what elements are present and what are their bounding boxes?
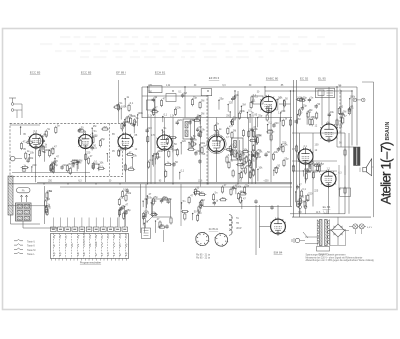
wire v x235 xyxy=(234,91,236,118)
svg-text:220: 220 xyxy=(148,127,153,130)
svg-text:ECH 81: ECH 81 xyxy=(155,71,166,75)
wire v x147.5 xyxy=(147,87,149,184)
svg-text:EL 95: EL 95 xyxy=(318,77,326,81)
triode V8 xyxy=(320,122,338,143)
wire tube drop 5 xyxy=(216,152,218,182)
dial lamp La1 xyxy=(353,224,358,229)
triode ECC85b V2 xyxy=(78,133,93,151)
rail value labels xyxy=(48,85,342,214)
wire vertical rail 7 xyxy=(340,91,342,136)
wire v x265 to tube F xyxy=(264,87,266,97)
component cluster 2 xyxy=(60,125,109,175)
wire extra v8 xyxy=(348,133,350,214)
svg-text:2M: 2M xyxy=(71,165,74,168)
svg-text:ECC 85: ECC 85 xyxy=(30,71,41,75)
tube socket S1 xyxy=(195,232,209,246)
svg-text:2M: 2M xyxy=(242,103,245,106)
cap above EM84 a xyxy=(254,199,257,204)
wire stub D xyxy=(164,118,166,136)
wire switch drops xyxy=(118,211,120,226)
svg-text:2M: 2M xyxy=(311,116,314,119)
wire y171 right xyxy=(292,170,337,172)
bridge rectifier GL xyxy=(328,217,349,245)
wire v x173 xyxy=(172,118,174,184)
svg-text:6,3 V: 6,3 V xyxy=(367,227,373,229)
component cluster 14 xyxy=(212,184,249,209)
svg-text:100k: 100k xyxy=(121,106,127,109)
component cluster 17 xyxy=(338,96,356,127)
wire tube drop 7 xyxy=(305,164,307,182)
wire lower mid bus xyxy=(203,206,292,208)
svg-text:0,1: 0,1 xyxy=(120,196,124,199)
svg-text:TA: TA xyxy=(236,217,239,220)
svg-text:25p: 25p xyxy=(154,196,159,199)
wire EM84 left v2 xyxy=(259,205,261,248)
svg-text:UKW: UKW xyxy=(236,228,242,230)
svg-text:220: 220 xyxy=(274,122,279,125)
switch vertical labels xyxy=(54,230,128,256)
sub box left xyxy=(153,199,171,217)
wire G down xyxy=(305,164,307,184)
component cluster 18 xyxy=(249,130,262,178)
wire mains a xyxy=(305,236,318,238)
svg-text:100k: 100k xyxy=(146,196,152,199)
wire extra v4 xyxy=(251,118,253,184)
wire tube drop 4 xyxy=(164,150,166,182)
wire vertical rail 1 xyxy=(290,91,292,207)
box top-mid xyxy=(201,89,212,96)
wire x118.5 drop xyxy=(118,80,120,123)
pot arrow xyxy=(147,213,156,222)
wire EM84 top xyxy=(277,205,279,219)
triode ECC85a V1 xyxy=(28,132,43,150)
wire right rail y217 xyxy=(292,216,371,218)
svg-text:100k: 100k xyxy=(155,156,161,159)
svg-text:25p: 25p xyxy=(122,205,127,208)
svg-text:Taste L: Taste L xyxy=(27,253,35,256)
svg-text:0,1: 0,1 xyxy=(130,102,134,105)
wire y161 right xyxy=(292,160,337,162)
svg-text:100: 100 xyxy=(315,144,320,147)
IF can T2 xyxy=(232,138,244,160)
svg-text:Taste M: Taste M xyxy=(27,249,35,252)
svg-text:0,1/250: 0,1/250 xyxy=(84,239,86,247)
wire B+ top rail xyxy=(142,86,357,88)
relay box xyxy=(141,218,150,238)
trimmer 2 xyxy=(50,168,54,172)
wire antenna down xyxy=(11,215,59,228)
svg-text:0,1: 0,1 xyxy=(181,169,185,172)
jack circles xyxy=(353,98,365,102)
svg-text:FA: FA xyxy=(22,190,25,193)
wire extra v3 xyxy=(248,118,250,184)
antenna jack left xyxy=(10,156,22,161)
component cluster 5 xyxy=(145,92,206,180)
FM antenna terminals xyxy=(9,98,22,118)
svg-text:220: 220 xyxy=(308,192,313,195)
svg-text:2M: 2M xyxy=(47,198,50,201)
svg-text:2M: 2M xyxy=(103,126,106,129)
antenna coil block xyxy=(16,203,32,221)
output transformer core xyxy=(354,147,361,166)
trimmer 1 xyxy=(22,168,26,172)
wire speaker down xyxy=(372,166,374,168)
shield dash x340 xyxy=(339,85,341,133)
svg-text:100k: 100k xyxy=(175,106,181,109)
svg-text:L 10: L 10 xyxy=(324,209,330,213)
wire vertical rail 5 xyxy=(344,133,346,214)
svg-text:25p: 25p xyxy=(160,224,165,227)
mains transformer core xyxy=(319,219,327,245)
wire y96 rail xyxy=(142,95,207,97)
small box a xyxy=(147,100,155,110)
tube value labels xyxy=(23,96,343,193)
wire tube drop 2 xyxy=(85,148,87,182)
values box xyxy=(340,188,351,196)
svg-text:25p: 25p xyxy=(219,97,224,100)
junction dots xyxy=(43,86,352,184)
wire mid bus xyxy=(37,181,292,183)
svg-text:0,1: 0,1 xyxy=(164,114,168,117)
wire OT top taps xyxy=(337,133,354,175)
wire tube drop 1 xyxy=(35,147,37,182)
svg-text:2M: 2M xyxy=(320,163,323,166)
wire vertical rail 9 xyxy=(356,87,358,146)
svg-text:EL 84: EL 84 xyxy=(323,205,331,209)
svg-text:220: 220 xyxy=(178,119,183,122)
ferrite rod antenna xyxy=(8,176,13,215)
wire OT secondary xyxy=(359,168,361,173)
svg-text:220: 220 xyxy=(32,164,37,167)
wire mains b xyxy=(305,243,318,245)
rectifier unit outline xyxy=(330,230,346,246)
wire x339 drop xyxy=(338,165,340,214)
svg-text:225: 225 xyxy=(215,132,220,135)
svg-text:220: 220 xyxy=(281,110,286,113)
component cluster 13 xyxy=(181,186,207,221)
wire y125 left xyxy=(10,124,40,126)
switch main box xyxy=(51,234,129,259)
speaker LS xyxy=(363,159,372,176)
svg-text:2M: 2M xyxy=(81,137,84,140)
wire vertical rail 4 xyxy=(299,133,301,217)
wire tube drop 6 xyxy=(270,113,272,183)
svg-text:2M: 2M xyxy=(68,163,71,166)
component cluster 1 xyxy=(20,124,60,173)
small box c xyxy=(166,94,176,102)
component cluster 15 xyxy=(295,184,313,209)
wire vertical rail 3 xyxy=(296,80,298,207)
wire extra v1 xyxy=(150,118,152,184)
svg-text:Taste K: Taste K xyxy=(27,245,35,248)
svg-text:Programmschalter: Programmschalter xyxy=(80,260,101,264)
svg-text:2M: 2M xyxy=(201,100,204,103)
svg-text:100k: 100k xyxy=(51,161,57,164)
wire x181 down xyxy=(180,184,182,227)
svg-text:EF 89 II: EF 89 II xyxy=(209,76,220,80)
svg-text:Atelier 1(–7): Atelier 1(–7) xyxy=(379,142,394,205)
wire y133 rail xyxy=(292,132,345,134)
svg-text:225: 225 xyxy=(314,189,319,192)
svg-text:100k: 100k xyxy=(274,167,280,170)
svg-text:0,1: 0,1 xyxy=(252,100,256,103)
wire stub C xyxy=(125,118,127,135)
svg-text:47p: 47p xyxy=(60,252,62,256)
svg-text:220: 220 xyxy=(307,171,312,174)
switch box internals xyxy=(52,234,127,261)
svg-text:25p: 25p xyxy=(101,138,106,141)
svg-text:EM 84: EM 84 xyxy=(274,251,283,255)
svg-text:25p: 25p xyxy=(193,97,198,100)
svg-text:2M: 2M xyxy=(258,135,261,138)
svg-text:25p: 25p xyxy=(54,164,59,167)
svg-text:25p: 25p xyxy=(163,196,168,199)
wire x200.5 xyxy=(200,118,202,187)
component cluster 8 xyxy=(295,96,335,126)
svg-text:2M: 2M xyxy=(233,130,236,133)
box top-left of IF xyxy=(149,86,162,93)
wire v x185 xyxy=(184,87,186,118)
svg-text:25p: 25p xyxy=(258,115,263,118)
wire vertical rail 2 xyxy=(293,80,295,217)
aux connector terminals xyxy=(299,195,308,214)
svg-text:5n/5k: 5n/5k xyxy=(96,241,98,247)
DIN connector arcs xyxy=(229,215,242,236)
svg-text:0,1: 0,1 xyxy=(350,107,354,110)
svg-text:100k: 100k xyxy=(153,153,159,156)
svg-text:Ro 85-21: Ro 85-21 xyxy=(209,229,219,231)
wire lamps xyxy=(349,226,366,234)
wire x155 xyxy=(154,96,156,184)
wire right rail y213.8 xyxy=(290,213,345,215)
wire extra v2 xyxy=(237,91,239,184)
svg-text:12,6: 12,6 xyxy=(198,180,203,182)
svg-text:2M: 2M xyxy=(233,119,236,122)
svg-text:100k: 100k xyxy=(126,192,132,195)
tube socket S2 xyxy=(214,233,228,247)
svg-text:100k: 100k xyxy=(151,200,157,203)
svg-text:EC 92: EC 92 xyxy=(300,77,309,81)
mains switch xyxy=(303,232,308,238)
svg-text:2M: 2M xyxy=(123,121,126,124)
shield dashed line xyxy=(206,95,208,185)
svg-text:100k: 100k xyxy=(239,110,245,113)
wire x146 down xyxy=(145,184,147,219)
svg-text:Taste U: Taste U xyxy=(27,240,35,243)
wire am v44 xyxy=(44,186,46,224)
svg-text:100k: 100k xyxy=(93,163,99,166)
svg-text:BRAUN: BRAUN xyxy=(385,122,391,141)
svg-text:220: 220 xyxy=(86,152,91,155)
pentode ECH81 V3 xyxy=(117,132,133,151)
wire extra v6 xyxy=(312,133,314,207)
svg-text:170: 170 xyxy=(43,134,48,137)
svg-text:225: 225 xyxy=(174,149,179,152)
switch contact row xyxy=(51,218,128,232)
svg-text:2M: 2M xyxy=(343,110,346,113)
cap above EM84 b xyxy=(270,205,273,210)
svg-text:170: 170 xyxy=(151,134,156,137)
svg-text:22k: 22k xyxy=(60,234,62,238)
wire H up xyxy=(328,87,330,126)
svg-text:Ro 85 - 22 ta: Ro 85 - 22 ta xyxy=(196,257,210,260)
ghost bleed-through text xyxy=(40,36,356,58)
svg-text:Abweichungen von ± 15% gegen d: Abweichungen von ± 15% gegen die aufgedr… xyxy=(306,259,375,262)
wire tube drop 3 xyxy=(125,149,127,182)
wire I down xyxy=(328,187,330,214)
component cluster 4 xyxy=(118,147,138,171)
wire vertical rail 6 xyxy=(336,87,338,133)
svg-text:12,6: 12,6 xyxy=(316,212,321,214)
svg-text:2M: 2M xyxy=(183,92,186,95)
component cluster 11 xyxy=(118,188,132,220)
tuner inner dashed divider xyxy=(108,123,110,176)
svg-text:220: 220 xyxy=(62,164,67,167)
wire extra v9 xyxy=(279,118,281,151)
wire left drop x142 xyxy=(141,87,143,118)
svg-text:0,1: 0,1 xyxy=(302,188,306,191)
svg-text:100k: 100k xyxy=(299,201,305,204)
svg-text:0,1: 0,1 xyxy=(99,165,103,168)
svg-text:100k: 100k xyxy=(350,96,356,99)
wire x371 speaker return xyxy=(362,82,374,217)
dial lamp La2 xyxy=(359,224,364,229)
svg-text:220: 220 xyxy=(182,140,187,143)
pentode EL84 V9 xyxy=(320,170,336,189)
svg-text:2M: 2M xyxy=(221,139,224,142)
transformer sub box xyxy=(317,247,330,252)
wire ground bus xyxy=(8,183,292,185)
mains plug xyxy=(292,238,305,243)
svg-text:2M: 2M xyxy=(93,125,96,128)
component cluster 16 xyxy=(232,150,263,181)
component cluster 7 xyxy=(264,96,289,175)
svg-text:100k: 100k xyxy=(137,112,143,115)
svg-text:0,1: 0,1 xyxy=(255,152,259,155)
wire x140.5 down xyxy=(140,184,142,234)
svg-text:0,1: 0,1 xyxy=(228,154,232,157)
component cluster 10 xyxy=(45,190,53,216)
wire extra v5 xyxy=(255,118,257,184)
svg-text:Spannungen gegen Chassis gemes: Spannungen gegen Chassis gemessen xyxy=(306,255,347,257)
svg-text:25p: 25p xyxy=(254,143,259,146)
pentode EF89-II V5 xyxy=(207,134,226,154)
svg-text:0,1: 0,1 xyxy=(149,159,153,162)
wire stub E xyxy=(216,118,218,137)
wire IF top rail xyxy=(142,117,292,119)
svg-text:25p: 25p xyxy=(284,157,289,160)
wire v x208 xyxy=(207,95,209,184)
wire EM84 left v1 xyxy=(255,205,257,255)
svg-text:0,1: 0,1 xyxy=(268,122,272,125)
svg-text:100k: 100k xyxy=(240,154,246,157)
svg-text:0,1/250: 0,1/250 xyxy=(84,230,86,238)
svg-text:EF 89 I: EF 89 I xyxy=(116,71,126,75)
wire am bus xyxy=(8,205,48,207)
svg-text:2M: 2M xyxy=(195,117,198,120)
tuner unit dashed outline xyxy=(10,123,123,176)
tuner bottom wire xyxy=(12,172,90,174)
wire y104 tubeF xyxy=(279,103,291,105)
svg-text:100k: 100k xyxy=(268,129,274,132)
switch legend table xyxy=(14,239,35,256)
svg-text:TB: TB xyxy=(236,223,239,225)
component cluster 12 xyxy=(142,193,172,233)
svg-text:2M: 2M xyxy=(297,118,300,121)
antenna oval xyxy=(17,188,31,193)
svg-text:Messwerte bei 220 V~ ohne Sign: Messwerte bei 220 V~ ohne Signal mit Röh… xyxy=(306,256,363,259)
svg-text:EABC 80: EABC 80 xyxy=(266,77,279,81)
wire y187 xyxy=(60,186,292,188)
magic eye EM84 xyxy=(270,217,286,235)
component cluster 3 xyxy=(113,96,144,133)
small box b xyxy=(253,96,263,104)
pentode EF89-I V4 xyxy=(156,133,172,152)
wire extra v7 xyxy=(321,91,323,126)
svg-text:25p: 25p xyxy=(303,105,308,108)
wire second top rail xyxy=(265,90,352,92)
extra parts mid xyxy=(159,216,172,242)
svg-text:0,1: 0,1 xyxy=(50,148,54,151)
svg-text:25p: 25p xyxy=(250,168,255,171)
component cluster 9 xyxy=(303,162,324,181)
svg-text:0,1: 0,1 xyxy=(233,147,237,150)
svg-text:100k: 100k xyxy=(73,161,79,164)
IF can T1 xyxy=(183,119,195,139)
triode EABC80 V7 xyxy=(297,147,313,166)
svg-text:25p: 25p xyxy=(303,97,308,100)
wire EM84 link xyxy=(260,226,271,228)
svg-text:220: 220 xyxy=(229,102,234,105)
svg-text:0,1: 0,1 xyxy=(308,111,312,114)
component cluster 6 xyxy=(214,94,263,179)
transformer windings xyxy=(317,219,329,245)
svg-text:ECC 85: ECC 85 xyxy=(81,71,92,75)
resistors on right rails xyxy=(289,118,291,126)
wire vertical rail 8 xyxy=(351,91,353,146)
box top-right unit xyxy=(316,88,335,98)
triode EC92 V6 xyxy=(260,95,277,115)
svg-text:+250: +250 xyxy=(263,180,269,182)
svg-text:100k: 100k xyxy=(28,157,34,160)
antenna arrows xyxy=(20,195,27,202)
